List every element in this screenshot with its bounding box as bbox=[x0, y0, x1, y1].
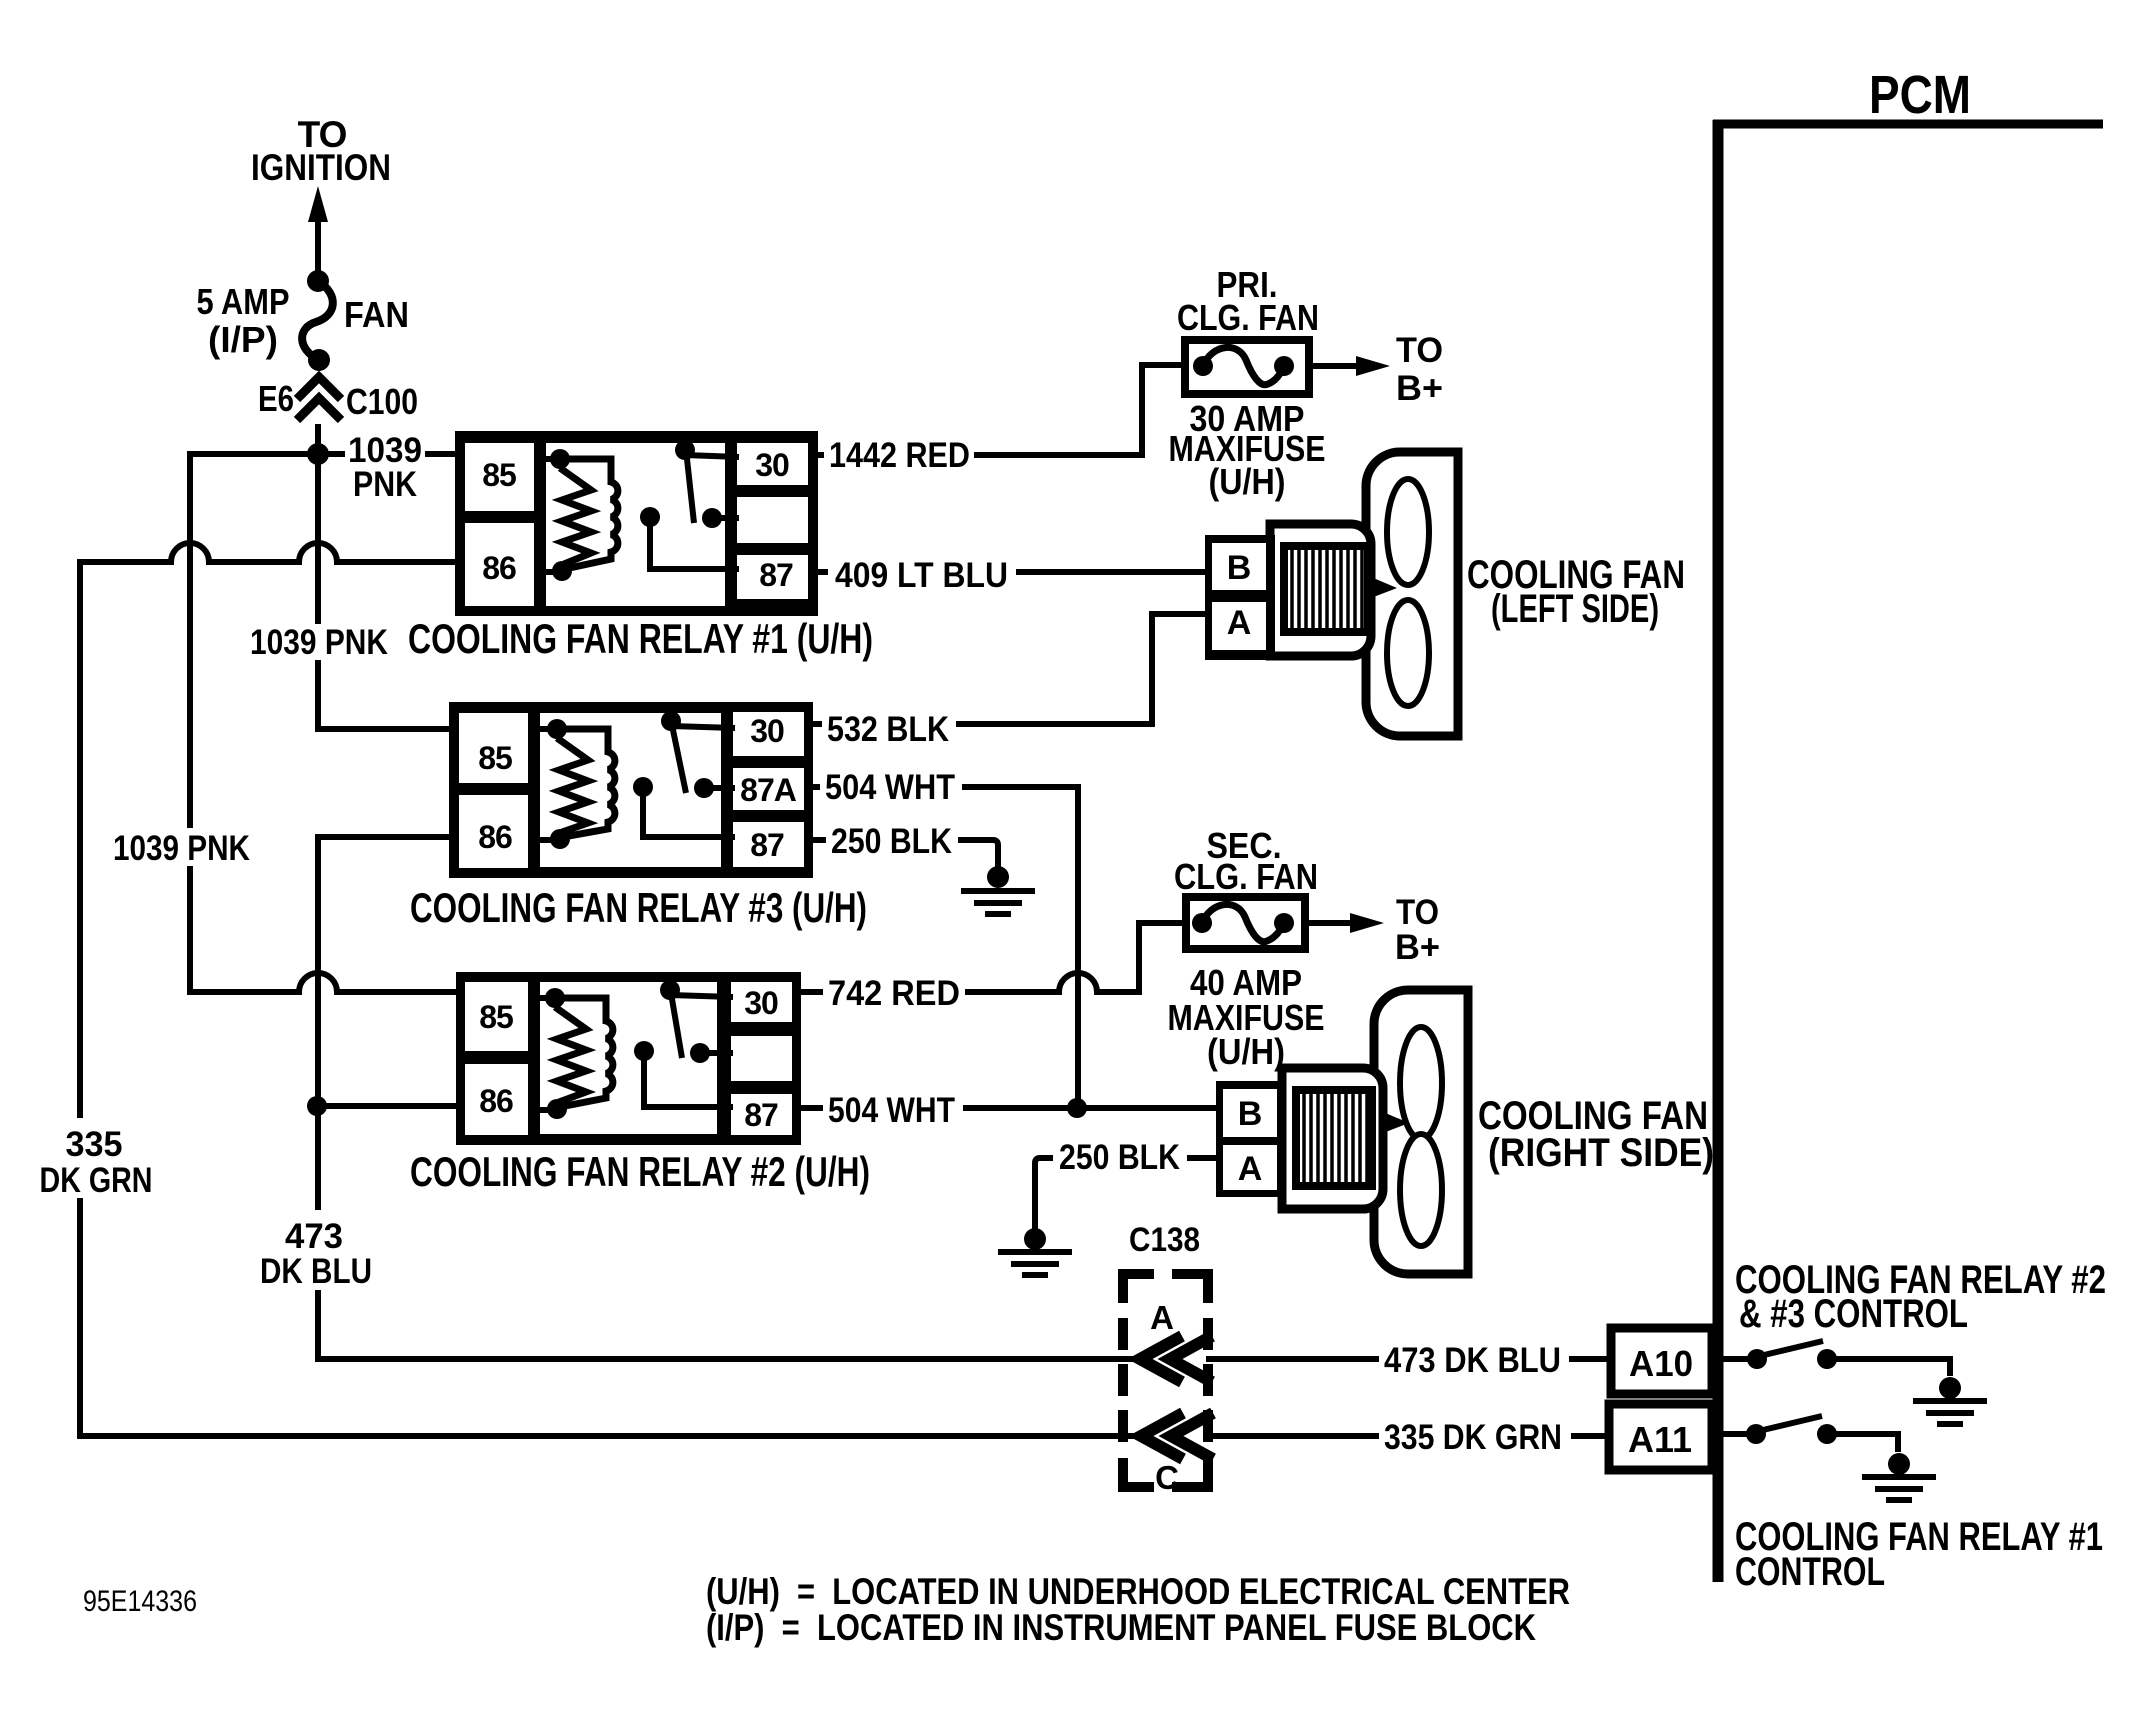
relay K1 (COOLING FAN RELAY #1) body bbox=[455, 431, 818, 616]
label 1039 PNK (lower left) bbox=[108, 828, 256, 868]
svg-text:TO: TO bbox=[1396, 893, 1439, 932]
cooling fan (right side) blades bbox=[1383, 1027, 1442, 1246]
svg-text:(I/P) = LOCATED IN INSTRUMEN: (I/P) = LOCATED IN INSTRUMENT PANEL FUSE… bbox=[706, 1607, 1536, 1648]
connector C100 double chevron bbox=[297, 377, 341, 452]
svg-text:(U/H) = LOCATED IN UNDERHOOD: (U/H) = LOCATED IN UNDERHOOD ELECTRICAL … bbox=[706, 1571, 1570, 1612]
relay K3 (COOLING FAN RELAY #3) body bbox=[449, 702, 813, 878]
wire 250 BLK from K3-87 to ground bbox=[813, 840, 998, 867]
relay K3 (COOLING FAN RELAY #3) switch contacts bbox=[633, 711, 735, 837]
label 1039 PNK (top) bbox=[345, 431, 425, 504]
fuse SEC CLG FAN 40A MAXIFUSE bbox=[1186, 897, 1305, 949]
svg-text:87: 87 bbox=[759, 557, 793, 593]
svg-text:30: 30 bbox=[755, 447, 789, 483]
svg-text:A: A bbox=[1227, 604, 1252, 642]
svg-text:PCM: PCM bbox=[1869, 65, 1971, 125]
label 504 WHT (K2) bbox=[823, 1091, 963, 1130]
label 250 BLK (K3) bbox=[826, 822, 958, 861]
label 335 DK GRN (left) bbox=[34, 1118, 162, 1200]
connector right fan B/A bbox=[1216, 1081, 1285, 1197]
cooling fan (right side) housing bbox=[1374, 990, 1468, 1274]
svg-text:742 RED: 742 RED bbox=[828, 974, 960, 1013]
label 504 WHT (K3) bbox=[820, 768, 962, 807]
ground G3 (S1) bbox=[1913, 1377, 1987, 1424]
label 532 BLK bbox=[822, 710, 956, 749]
wire 473 DK BLU from C138-A to PCM A10 bbox=[1206, 1356, 1611, 1362]
arrow to B+ (PRI) bbox=[1309, 356, 1390, 376]
svg-text:250 BLK: 250 BLK bbox=[1059, 1138, 1180, 1177]
label PRI. CLG. FAN bbox=[1177, 264, 1319, 338]
svg-text:5 AMP: 5 AMP bbox=[197, 281, 290, 322]
label COOLING FAN RELAY #1 CONTROL bbox=[1735, 1515, 2103, 1594]
wire 1442 RED from K1-30 to PRI maxifuse bbox=[818, 365, 1185, 455]
cooling fan (left side) motor bbox=[1270, 524, 1371, 656]
relay K2 (COOLING FAN RELAY #2) coil (resistor + winding in parallel) bbox=[530, 988, 613, 1119]
connector left fan B/A bbox=[1205, 535, 1275, 660]
svg-text:DK BLU: DK BLU bbox=[260, 1252, 372, 1291]
svg-text:86: 86 bbox=[482, 550, 516, 586]
label 742 RED bbox=[823, 974, 965, 1013]
svg-text:A10: A10 bbox=[1629, 1343, 1693, 1384]
svg-text:30: 30 bbox=[750, 713, 784, 749]
wire 409 LT BLU from K1-87 to left fan B bbox=[818, 569, 1212, 575]
label 1442 RED bbox=[824, 436, 974, 475]
label TO B+ (SEC) bbox=[1395, 893, 1440, 967]
label 250 BLK (right fan) bbox=[1053, 1138, 1187, 1177]
svg-text:FAN: FAN bbox=[344, 294, 409, 335]
svg-text:85: 85 bbox=[482, 457, 516, 493]
wire 504 WHT from K2-87 to right fan B bbox=[801, 1105, 1216, 1111]
wire to ignition (1039 PNK feed) bbox=[308, 186, 328, 272]
svg-text:504 WHT: 504 WHT bbox=[828, 1091, 955, 1130]
svg-text:473: 473 bbox=[285, 1217, 343, 1256]
relay K2 (COOLING FAN RELAY #2) switch contacts bbox=[634, 980, 733, 1107]
svg-text:COOLING FAN RELAY #2 (U/H): COOLING FAN RELAY #2 (U/H) bbox=[410, 1148, 870, 1195]
svg-text:85: 85 bbox=[479, 999, 513, 1035]
connector PCM pin A10 box bbox=[1611, 1328, 1712, 1394]
relay K3 (COOLING FAN RELAY #3) coil (resistor + winding in parallel) bbox=[530, 719, 615, 849]
label 473 DK BLU (right) bbox=[1379, 1341, 1569, 1380]
wire 742 RED from K2-30 to SEC maxifuse (hop over 504) bbox=[801, 923, 1186, 992]
svg-text:95E14336: 95E14336 bbox=[83, 1585, 197, 1618]
svg-text:DK GRN: DK GRN bbox=[40, 1161, 153, 1200]
connector PCM pin A11 box bbox=[1609, 1404, 1712, 1470]
label 473 DK BLU (left) bbox=[252, 1210, 380, 1291]
wire 532 BLK from K3-30 to left fan A bbox=[813, 614, 1212, 724]
cooling fan (left side) motor core hatch bbox=[1284, 546, 1368, 632]
svg-text:85: 85 bbox=[478, 740, 512, 776]
label 1039 PNK (middle) bbox=[244, 623, 394, 662]
junction 473 DK BLU bbox=[307, 1096, 327, 1116]
svg-text:COOLING FAN RELAY #1 (U/H): COOLING FAN RELAY #1 (U/H) bbox=[408, 615, 873, 662]
cooling fan (right side) motor core hatch bbox=[1296, 1090, 1372, 1186]
wire 473 DK BLU branch to K2-86 bbox=[318, 1103, 463, 1109]
svg-text:A11: A11 bbox=[1628, 1419, 1692, 1460]
svg-text:335: 335 bbox=[66, 1125, 123, 1164]
relay K2 (COOLING FAN RELAY #2) body bbox=[456, 972, 801, 1145]
svg-text:CLG. FAN: CLG. FAN bbox=[1177, 297, 1319, 338]
junction 504 WHT bbox=[1067, 1098, 1087, 1118]
label TO IGNITION bbox=[251, 114, 391, 188]
label COOLING FAN (LEFT SIDE) bbox=[1467, 553, 1685, 631]
svg-text:(LEFT SIDE): (LEFT SIDE) bbox=[1491, 587, 1659, 631]
svg-text:409 LT BLU: 409 LT BLU bbox=[835, 556, 1008, 595]
wire 1039 PNK left branch down to relay K2 pin 85 (hop over 473 net) bbox=[190, 454, 463, 992]
svg-text:250 BLK: 250 BLK bbox=[831, 822, 952, 861]
label 335 DK GRN (right) bbox=[1379, 1418, 1571, 1457]
svg-text:(I/P): (I/P) bbox=[208, 319, 278, 360]
relay K1 (COOLING FAN RELAY #1) coil (resistor + winding in parallel) bbox=[536, 449, 618, 581]
wire 504 WHT from K3-87A down to junction bbox=[813, 787, 1078, 1108]
junction 1039 PNK at C100 bbox=[307, 443, 329, 465]
svg-text:30: 30 bbox=[744, 985, 778, 1021]
label SEC. CLG. FAN bbox=[1174, 825, 1318, 897]
svg-text:CONTROL: CONTROL bbox=[1735, 1550, 1885, 1594]
wire 335 DK GRN from K1-86 to C138-C (hops over 1039 verticals) bbox=[80, 543, 1142, 1436]
fuse F_FAN 5 AMP (I/P) symbol bbox=[302, 270, 333, 371]
cooling fan (left side) housing bbox=[1366, 452, 1458, 736]
connector C138 chevron A bbox=[1140, 1336, 1212, 1382]
connector C138 dashed box bbox=[1123, 1274, 1208, 1487]
switch S2 (cooling fan relay #1 control) bbox=[1723, 1416, 1898, 1452]
svg-text:87: 87 bbox=[744, 1097, 778, 1133]
svg-text:& #3 CONTROL: & #3 CONTROL bbox=[1739, 1292, 1968, 1336]
svg-text:(U/H): (U/H) bbox=[1207, 1031, 1285, 1072]
svg-text:(RIGHT SIDE): (RIGHT SIDE) bbox=[1488, 1131, 1714, 1175]
svg-text:E6: E6 bbox=[258, 378, 294, 419]
wire 473 DK BLU from K3-86 down to C138-A bbox=[318, 837, 1141, 1359]
connector C138 chevron C bbox=[1141, 1413, 1213, 1459]
wire 250 BLK from right fan A to ground bbox=[1035, 1158, 1216, 1229]
relay K1 (COOLING FAN RELAY #1) switch contacts bbox=[640, 440, 739, 569]
label 409 LT BLU bbox=[828, 556, 1016, 595]
label COOLING FAN (RIGHT SIDE) bbox=[1478, 1094, 1714, 1175]
svg-text:532 BLK: 532 BLK bbox=[827, 710, 949, 749]
svg-text:473 DK BLU: 473 DK BLU bbox=[1384, 1341, 1561, 1380]
svg-text:86: 86 bbox=[479, 1083, 513, 1119]
svg-text:504 WHT: 504 WHT bbox=[825, 768, 955, 807]
ground G2 (250 BLK right fan) bbox=[998, 1228, 1072, 1275]
switch S1 (cooling fan relay #2 & #3 control) bbox=[1723, 1341, 1950, 1376]
label 30 AMP MAXIFUSE (U/H) bbox=[1169, 398, 1326, 502]
svg-text:335 DK GRN: 335 DK GRN bbox=[1384, 1418, 1562, 1457]
label 40 AMP MAXIFUSE (U/H) bbox=[1168, 962, 1325, 1072]
fuse PRI CLG FAN 30A MAXIFUSE bbox=[1185, 340, 1309, 394]
svg-text:B+: B+ bbox=[1395, 928, 1440, 967]
svg-text:87A: 87A bbox=[740, 772, 797, 808]
svg-text:1039 PNK: 1039 PNK bbox=[250, 623, 388, 662]
svg-text:B+: B+ bbox=[1396, 369, 1443, 408]
arrow to B+ (SEC) bbox=[1305, 913, 1384, 933]
label TO B+ (PRI) bbox=[1396, 331, 1443, 408]
svg-text:C100: C100 bbox=[346, 381, 418, 422]
svg-text:C138: C138 bbox=[1129, 1221, 1200, 1259]
wire 1039 PNK down branch to relay K3 pin 85 bbox=[318, 454, 457, 729]
svg-text:87: 87 bbox=[750, 827, 784, 863]
wire 1039 PNK junction to relay K1 pin 85 bbox=[318, 451, 463, 457]
svg-text:CLG. FAN: CLG. FAN bbox=[1174, 856, 1318, 897]
label 5 AMP (I/P) bbox=[197, 281, 290, 360]
svg-text:IGNITION: IGNITION bbox=[251, 147, 391, 188]
svg-text:86: 86 bbox=[478, 819, 512, 855]
cooling fan (left side) blades bbox=[1371, 479, 1429, 706]
PCM boundary line bbox=[1713, 120, 2103, 1582]
cooling fan (right side) motor bbox=[1282, 1068, 1383, 1209]
svg-text:B: B bbox=[1227, 549, 1252, 587]
ground G4 (S2) bbox=[1862, 1453, 1936, 1500]
svg-text:COOLING FAN RELAY #3 (U/H): COOLING FAN RELAY #3 (U/H) bbox=[410, 884, 867, 931]
svg-text:A: A bbox=[1238, 1150, 1263, 1188]
svg-text:B: B bbox=[1238, 1095, 1263, 1133]
svg-text:A: A bbox=[1150, 1299, 1174, 1336]
svg-text:1442 RED: 1442 RED bbox=[829, 436, 970, 475]
label COOLING FAN RELAY #2 & #3 CONTROL bbox=[1735, 1258, 2106, 1336]
svg-text:(U/H): (U/H) bbox=[1209, 461, 1286, 502]
svg-text:PNK: PNK bbox=[353, 465, 417, 504]
ground G1 (250 BLK relay K3) bbox=[961, 866, 1035, 914]
svg-text:1039 PNK: 1039 PNK bbox=[113, 829, 250, 868]
wire 335 DK GRN from C138-C to PCM A11 bbox=[1207, 1433, 1609, 1439]
svg-text:C: C bbox=[1155, 1459, 1179, 1496]
svg-text:TO: TO bbox=[1396, 331, 1443, 370]
